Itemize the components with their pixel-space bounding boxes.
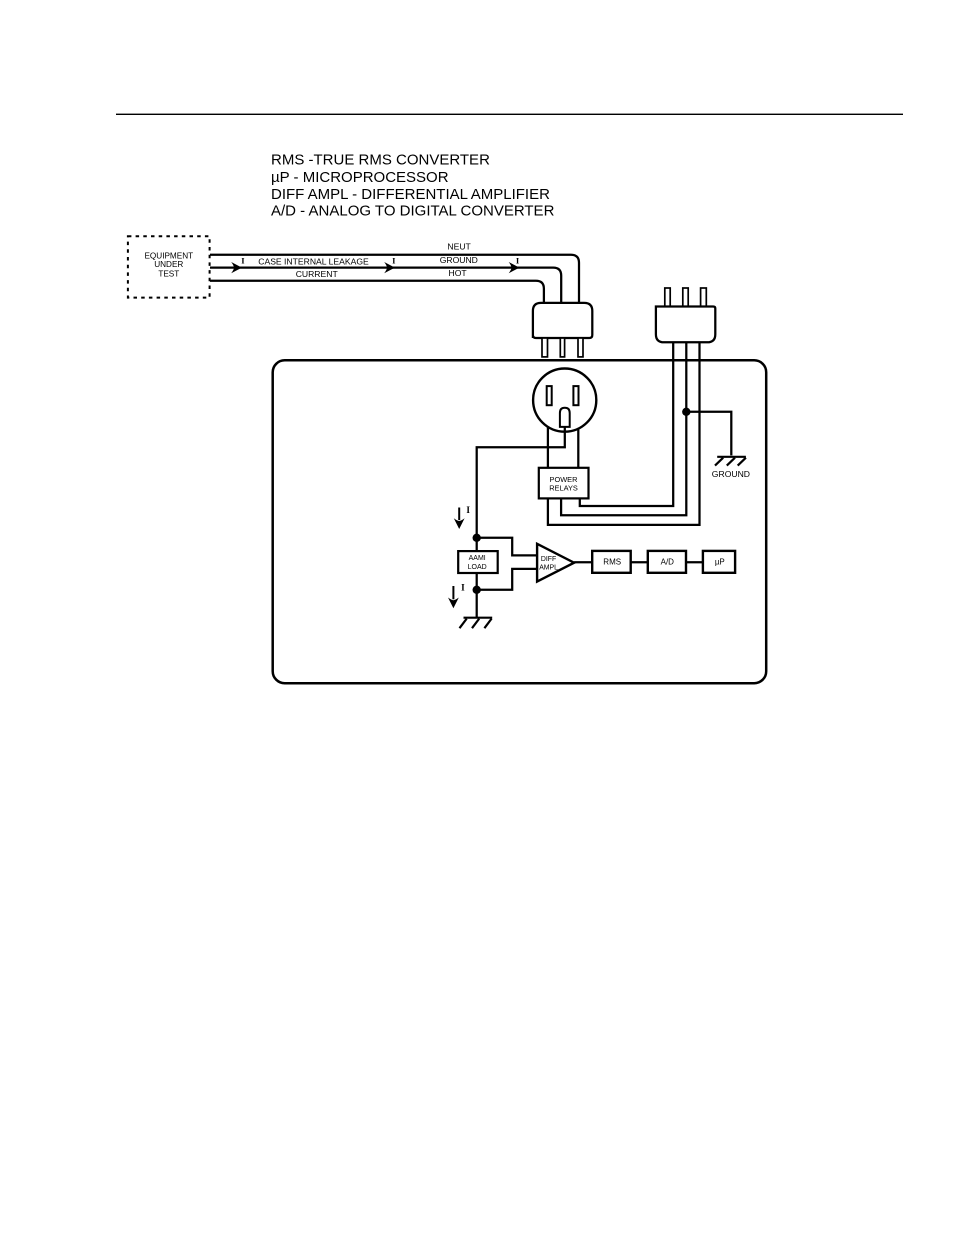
svg-text:AMPL: AMPL <box>539 564 558 571</box>
svg-text:RMS -TRUE RMS CONVERTER: RMS -TRUE RMS CONVERTER <box>271 152 490 169</box>
svg-text:GROUND: GROUND <box>440 255 478 265</box>
svg-text:HOT: HOT <box>449 268 468 278</box>
svg-text:AAMI: AAMI <box>469 555 486 562</box>
svg-text:µP - MICROPROCESSOR: µP - MICROPROCESSOR <box>271 169 449 186</box>
svg-text:GROUND: GROUND <box>712 469 750 479</box>
svg-text:CASE INTERNAL LEAKAGE: CASE INTERNAL LEAKAGE <box>258 257 369 267</box>
svg-text:I: I <box>466 505 470 515</box>
svg-text:DIFF AMPL - DIFFERENTIAL AMPLI: DIFF AMPL - DIFFERENTIAL AMPLIFIER <box>271 186 550 203</box>
svg-text:EQUIPMENT: EQUIPMENT <box>144 251 193 260</box>
svg-text:DIFF: DIFF <box>541 556 556 563</box>
svg-text:CURRENT: CURRENT <box>296 269 339 279</box>
svg-text:A/D - ANALOG TO DIGITAL CONVER: A/D - ANALOG TO DIGITAL CONVERTER <box>271 203 555 220</box>
svg-text:µP: µP <box>715 558 725 567</box>
svg-text:LOAD: LOAD <box>468 564 487 571</box>
svg-text:RELAYS: RELAYS <box>549 483 578 492</box>
svg-text:UNDER: UNDER <box>154 260 183 269</box>
svg-text:RMS: RMS <box>603 558 621 567</box>
svg-text:I: I <box>461 582 465 592</box>
svg-text:A/D: A/D <box>661 558 675 567</box>
svg-text:TEST: TEST <box>158 270 179 279</box>
svg-text:NEUT: NEUT <box>447 241 471 251</box>
